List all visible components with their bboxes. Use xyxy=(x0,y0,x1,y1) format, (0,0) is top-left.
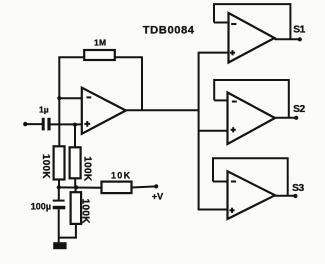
wire plus node down to resistor xyxy=(74,125,76,148)
svg-text:10K: 10K xyxy=(111,171,131,181)
svg-text:+V: +V xyxy=(152,191,163,201)
wire bus to op-amp U4 plus xyxy=(198,209,228,211)
resistor 1M xyxy=(84,37,115,60)
wire bias node down to resistor 100K bottom xyxy=(75,187,77,192)
terminal S2 xyxy=(293,104,305,120)
wire U2 output xyxy=(275,38,300,40)
wire minus node to op-amp minus input xyxy=(59,97,82,99)
wire U3 output xyxy=(275,117,296,119)
svg-text:100K: 100K xyxy=(40,154,51,180)
capacitor 1u xyxy=(39,105,51,131)
svg-text:100K: 100K xyxy=(81,156,92,182)
terminal +V xyxy=(152,184,163,201)
wire U4 feedback loop xyxy=(213,158,288,196)
svg-text:1M: 1M xyxy=(94,37,106,47)
wire bus vertical xyxy=(198,53,200,210)
wire resistor bottom to ground corner xyxy=(59,224,76,238)
wire U2 minus input xyxy=(214,22,229,24)
wire capacitor 100u to ground xyxy=(58,209,60,243)
wire 10K to +V xyxy=(132,186,157,187)
op-amp U1 xyxy=(82,88,126,134)
input terminal node xyxy=(23,122,27,126)
wire U3 minus input xyxy=(214,99,227,101)
resistor 100K left xyxy=(40,146,65,179)
svg-text:S2: S2 xyxy=(293,104,305,115)
wire feedback right drop xyxy=(141,56,143,110)
wire resistor middle bottom xyxy=(74,178,76,187)
svg-text:100µ: 100µ xyxy=(31,202,51,212)
terminal S1 xyxy=(293,24,305,41)
wire bus to op-amp U3 plus xyxy=(199,130,228,132)
IC label TDB0084 xyxy=(143,24,195,36)
wire U2 feedback loop xyxy=(214,4,290,39)
svg-text:100K: 100K xyxy=(80,199,91,225)
terminal S3 xyxy=(292,183,304,198)
wire minus node down to resistor xyxy=(58,98,60,146)
node bias right xyxy=(74,185,78,189)
wire U3 feedback loop xyxy=(214,80,289,118)
svg-text:1µ: 1µ xyxy=(39,105,49,115)
ground xyxy=(53,242,66,249)
resistor 10K xyxy=(102,171,132,194)
wire op-amp U1 output xyxy=(126,109,199,111)
svg-text:TDB0084: TDB0084 xyxy=(143,24,195,36)
wire feedback left riser xyxy=(58,57,60,99)
wire feedback top left xyxy=(58,56,84,58)
wire input to capacitor xyxy=(25,123,42,125)
wire bias junction horizontal xyxy=(59,186,102,188)
op-amp U4 xyxy=(228,171,276,219)
node minus junction xyxy=(57,96,61,100)
wire capacitor to op-amp plus input xyxy=(51,123,82,125)
wire U4 output xyxy=(275,195,295,197)
resistor 100K bottom xyxy=(71,192,91,224)
op-amp U2 xyxy=(229,13,275,63)
capacitor 100u xyxy=(31,200,66,212)
op-amp U3 xyxy=(228,93,276,145)
wire bias node to capacitor 100u xyxy=(58,187,60,200)
svg-text:S3: S3 xyxy=(292,183,304,194)
wire resistor left bottom xyxy=(58,180,60,188)
wire U4 minus input xyxy=(213,181,228,183)
wire feedback top right xyxy=(115,56,142,58)
svg-text:S1: S1 xyxy=(293,24,305,35)
node plus-input junction xyxy=(73,123,77,127)
wire bus to op-amp U2 plus xyxy=(198,52,229,54)
resistor 100K middle xyxy=(70,147,93,182)
node bias left xyxy=(57,185,61,189)
